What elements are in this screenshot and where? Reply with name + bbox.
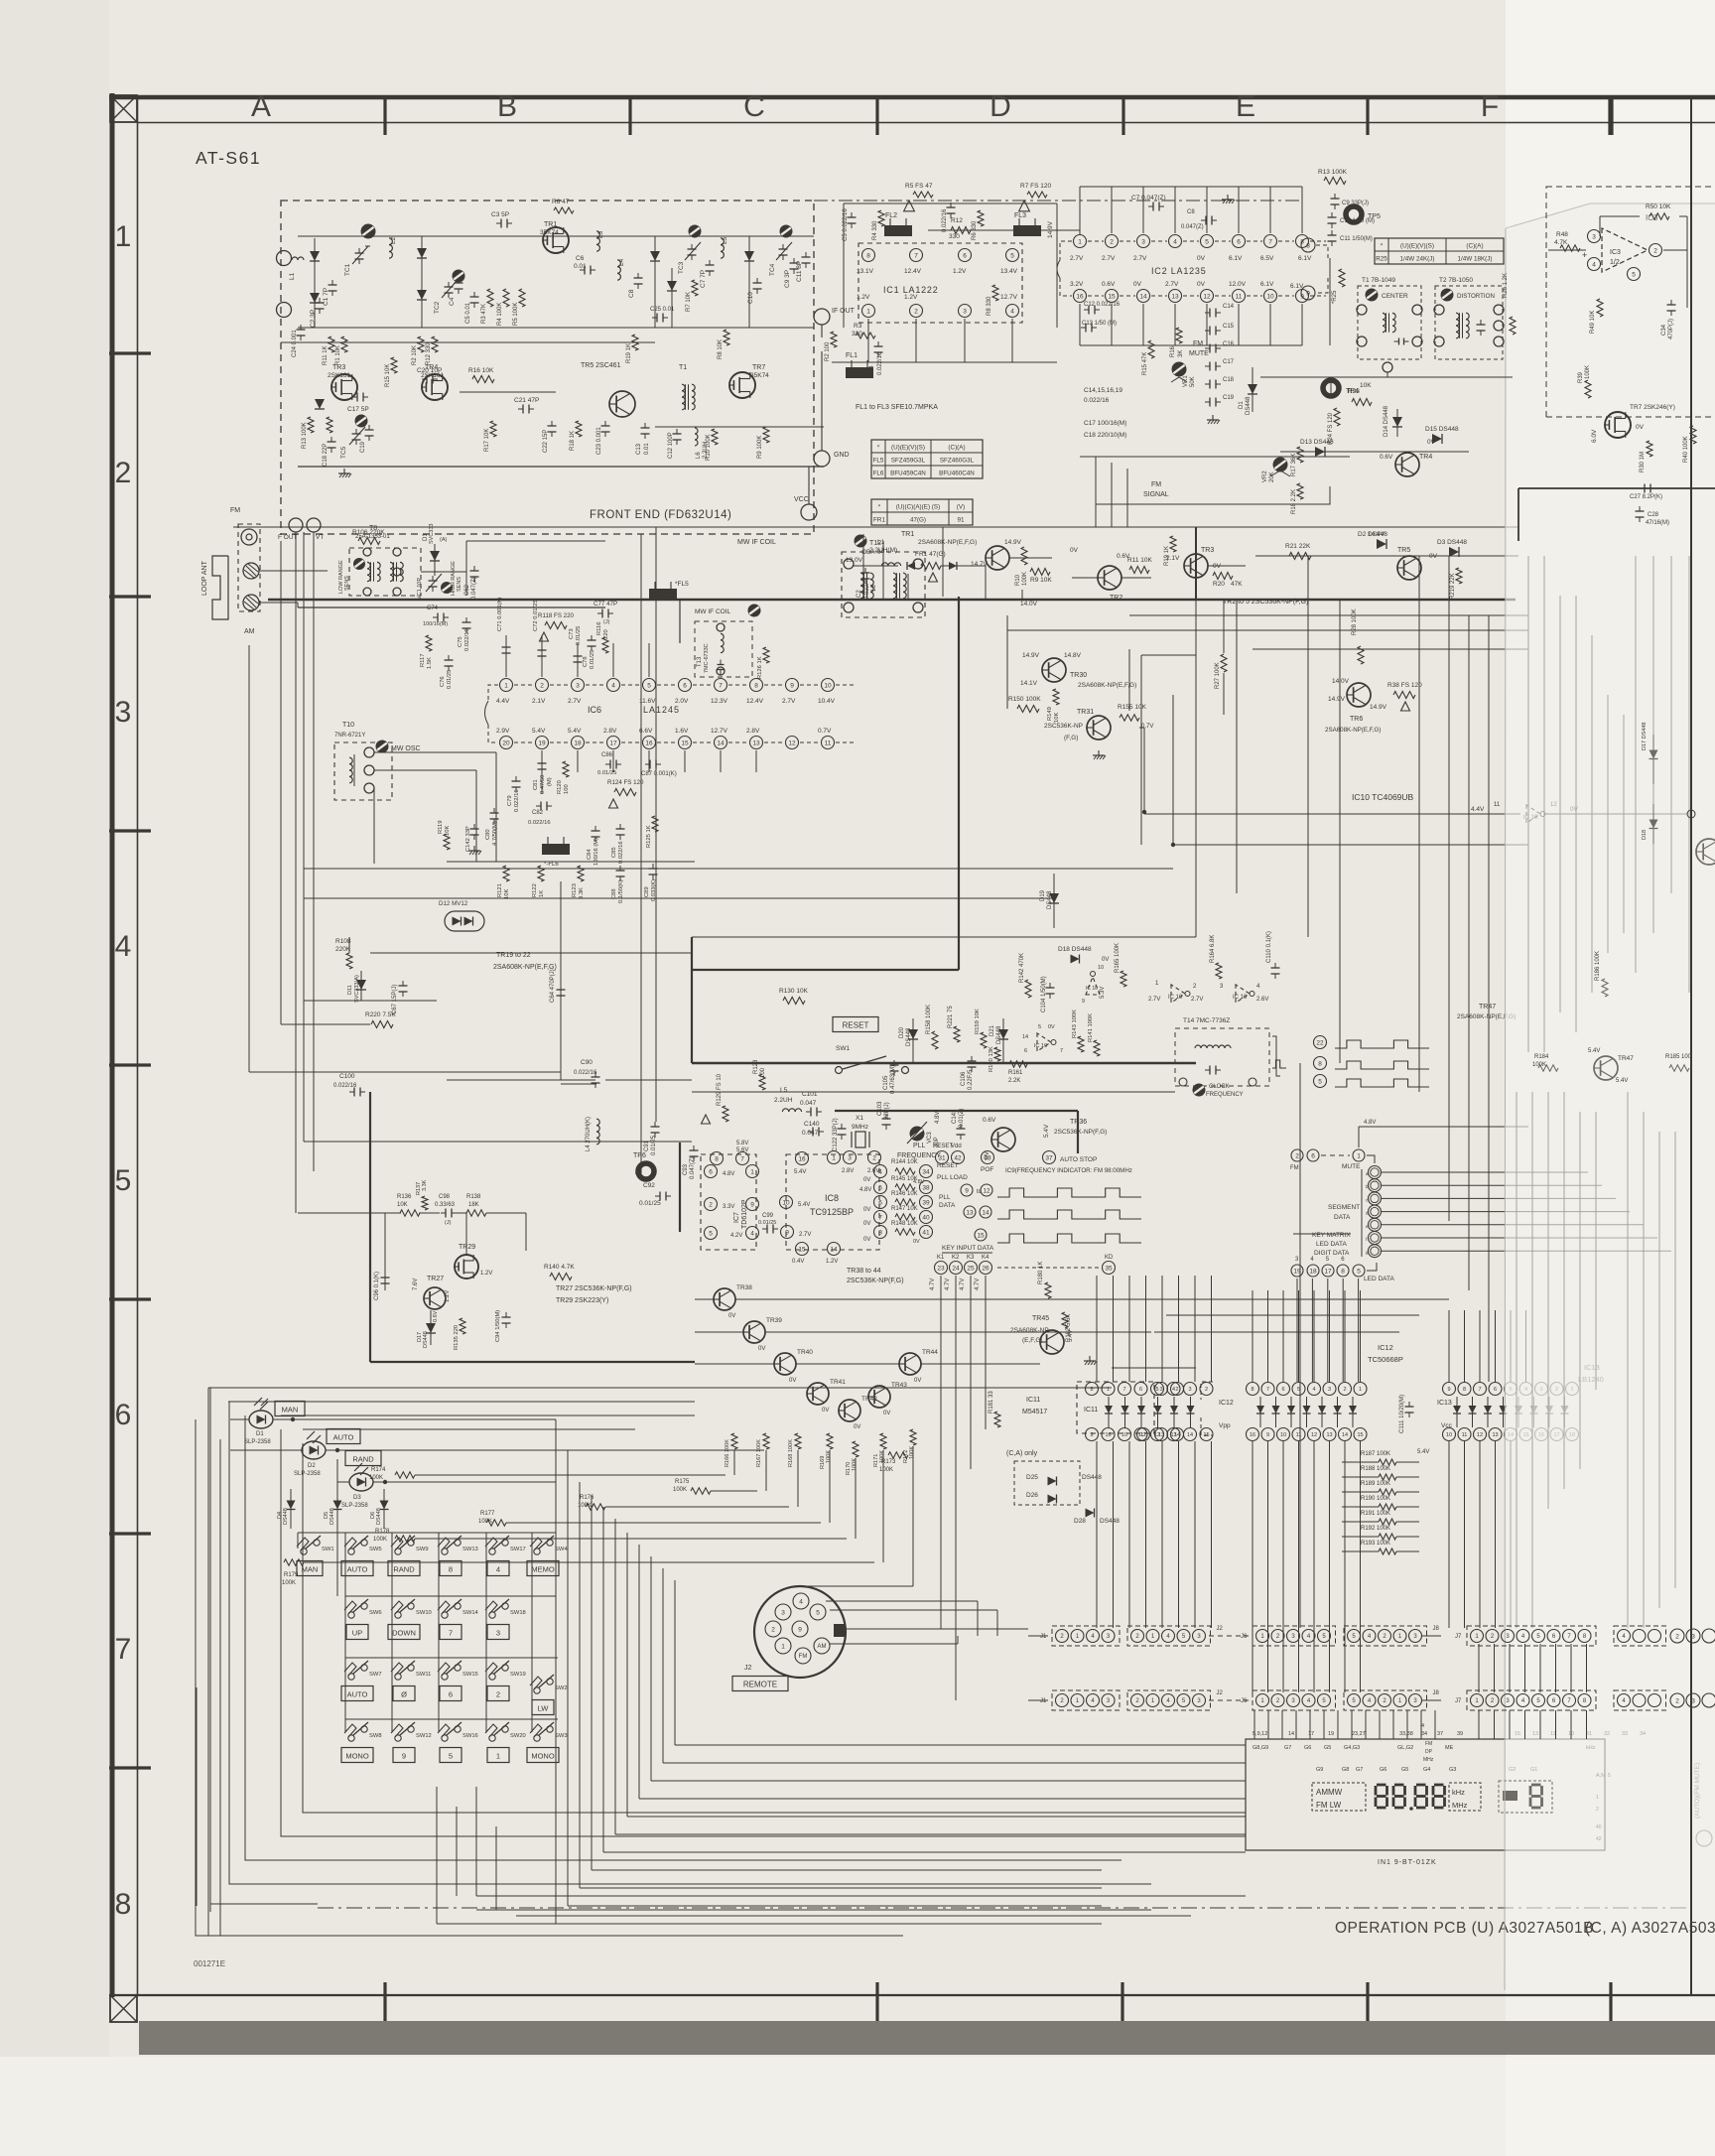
svg-text:7: 7 — [878, 1214, 882, 1221]
svg-text:(E,F,G): (E,F,G) — [1022, 1337, 1043, 1344]
trimmer TC3 — [678, 225, 701, 274]
svg-text:L5: L5 — [780, 1087, 788, 1094]
resistor R2 100 — [825, 332, 837, 361]
svg-text:0V: 0V — [822, 1408, 829, 1414]
capacitor C10 — [747, 278, 762, 304]
wire trunk v3 — [295, 556, 297, 1213]
svg-text:T2 7B-1050: T2 7B-1050 — [1439, 277, 1473, 284]
connector J7 lower — [1455, 1690, 1596, 1710]
svg-text:2.8V: 2.8V — [603, 728, 617, 735]
IC2 pin 10 — [1260, 281, 1294, 303]
svg-text:C94 1/50(M): C94 1/50(M) — [495, 1310, 501, 1342]
svg-text:SW3: SW3 — [555, 1733, 568, 1739]
wire r108 net — [304, 937, 437, 1001]
svg-text:31: 31 — [938, 1154, 946, 1161]
resistor R135 220 — [454, 1318, 465, 1350]
svg-text:6.1V: 6.1V — [1229, 255, 1243, 262]
wire disp feed 4 — [1295, 1710, 1297, 1739]
svg-text:2.2UH: 2.2UH — [774, 1097, 793, 1104]
svg-text:D18: D18 — [1642, 830, 1648, 840]
svg-text:R149: R149 — [1047, 707, 1053, 721]
svg-text:13.1V: 13.1V — [857, 268, 874, 275]
svg-text:C28: C28 — [1648, 512, 1659, 518]
svg-text:R19 1K: R19 1K — [1164, 546, 1170, 566]
svg-text:M54517: M54517 — [1022, 1409, 1047, 1415]
svg-text:C100: C100 — [339, 1073, 355, 1080]
IC12 pin 3 — [1323, 1383, 1336, 1396]
svg-text:14: 14 — [1139, 293, 1147, 300]
transistor TR5 2SC461 — [581, 362, 635, 417]
LED D2 SLP-2358 — [230, 1429, 764, 1478]
svg-text:3.3V: 3.3V — [723, 1204, 734, 1210]
capacitor C71 0.001(K) — [497, 597, 511, 677]
svg-text:R167 100K: R167 100K — [756, 1439, 762, 1467]
waveform pins 22 8 3 — [1314, 1036, 1430, 1088]
svg-text:LA1245: LA1245 — [643, 705, 680, 715]
wire overlay opamp — [1548, 216, 1687, 308]
svg-text:4.7V: 4.7V — [930, 1279, 936, 1290]
svg-text:R138: R138 — [466, 1194, 481, 1200]
svg-text:12: 12 — [1477, 1432, 1483, 1438]
wire nest 4 — [592, 1495, 1102, 1870]
svg-text:1: 1 — [1078, 238, 1082, 245]
svg-text:C11 1/50(M): C11 1/50(M) — [1340, 236, 1373, 242]
transistor TR4 2SK161 — [421, 364, 448, 400]
svg-text:6: 6 — [1139, 1387, 1142, 1393]
svg-text:(F,G): (F,G) — [1064, 735, 1078, 741]
grid label D — [989, 90, 1011, 123]
IC11 pin 16 — [1102, 1428, 1115, 1441]
filter FL5 — [649, 581, 689, 600]
wire row5-6 pin drops c — [1449, 1310, 1526, 1382]
svg-text:R17 10K: R17 10K — [484, 429, 490, 452]
label KEY MATRIX — [1312, 1232, 1351, 1257]
svg-text:D26: D26 — [1026, 1492, 1038, 1499]
svg-text:5.6V: 5.6V — [736, 1147, 748, 1153]
svg-text:7: 7 — [1122, 1387, 1125, 1393]
IC12 pin 14 — [1339, 1428, 1352, 1441]
capacitor C17 — [1205, 359, 1235, 371]
svg-text:G4,G3: G4,G3 — [1344, 1745, 1360, 1751]
svg-text:TC5: TC5 — [340, 446, 347, 459]
svg-text:3: 3 — [963, 308, 967, 315]
svg-text:G9: G9 — [1316, 1767, 1323, 1773]
wire tr39 col drop — [711, 1450, 766, 1491]
capacitor C104 1/50 — [1041, 976, 1055, 1012]
svg-text:5: 5 — [709, 1230, 713, 1237]
svg-text:R4 330: R4 330 — [872, 220, 878, 240]
svg-text:R5 100K: R5 100K — [513, 303, 519, 326]
svg-text:FL6: FL6 — [873, 470, 884, 476]
svg-text:10.4V: 10.4V — [818, 698, 836, 705]
svg-text:(V): (V) — [957, 503, 965, 510]
svg-text:5: 5 — [1632, 271, 1636, 278]
svg-text:12.0V: 12.0V — [1229, 281, 1247, 288]
transistor TR44 — [899, 1349, 938, 1384]
svg-text:VT: VT — [316, 534, 324, 541]
wire if stage rails — [854, 527, 1518, 578]
wire disp feed 6 — [1323, 1710, 1325, 1739]
terminal IF OUT — [814, 308, 856, 325]
svg-text:6: 6 — [1311, 1152, 1315, 1159]
IC8 pin 7 — [863, 1211, 887, 1228]
connector J1 lower — [1040, 1690, 1120, 1710]
svg-text:2.7V: 2.7V — [782, 698, 796, 705]
IC11 pin 11 — [1134, 1428, 1147, 1441]
svg-text:1/4W 18K(J): 1/4W 18K(J) — [1458, 255, 1493, 262]
svg-text:4.7V: 4.7V — [960, 1279, 966, 1290]
svg-text:C88: C88 — [611, 888, 617, 899]
svg-text:11: 11 — [1462, 1432, 1468, 1438]
svg-text:14.9V: 14.9V — [1004, 539, 1022, 546]
resistor R2 10K — [412, 337, 424, 365]
resistor R19 1K — [626, 335, 638, 363]
label KEY INPUT DATA — [942, 1245, 994, 1253]
IC2 pin 8 — [1296, 235, 1327, 248]
IC11 pin 14 — [1184, 1428, 1197, 1441]
svg-text:D13 DS448: D13 DS448 — [1300, 439, 1334, 446]
label IC9 frequency — [1005, 1167, 1132, 1174]
svg-text:13: 13 — [1326, 1432, 1332, 1438]
IC6 pin 20 — [496, 728, 532, 749]
svg-text:D25: D25 — [1026, 1474, 1038, 1481]
diode D11 SVC333 — [347, 971, 366, 1003]
svg-text:C18 220/10(M): C18 220/10(M) — [1084, 432, 1126, 439]
resistor R184 100K — [1532, 1054, 1558, 1071]
svg-text:5.4V: 5.4V — [1043, 1124, 1050, 1138]
svg-text:L3: L3 — [597, 230, 604, 238]
diode D28 DS448 — [1074, 1509, 1120, 1526]
display digit grids — [1316, 1767, 1537, 1773]
row tick 1 — [109, 351, 151, 354]
svg-text:4: 4 — [878, 1168, 882, 1175]
transistor TR6 — [1325, 678, 1387, 734]
svg-text:R16: R16 — [1170, 345, 1176, 357]
svg-text:C17 100/16(M): C17 100/16(M) — [1084, 420, 1126, 427]
svg-text:DS448: DS448 — [1246, 396, 1252, 415]
wire mid band v1138 — [1128, 649, 1130, 711]
svg-text:R117: R117 — [420, 654, 426, 667]
svg-text:2: 2 — [1675, 1633, 1679, 1640]
wire ic2 pin drops top — [1080, 187, 1302, 233]
trimmer TC5 — [340, 415, 367, 459]
svg-text:K3: K3 — [967, 1255, 975, 1261]
capacitor C122 33P — [833, 1118, 847, 1151]
svg-text:J8: J8 — [1433, 1626, 1440, 1632]
wire disp feed 12 — [1406, 1710, 1408, 1739]
connector J6 lower — [1241, 1690, 1336, 1710]
svg-text:DS448: DS448 — [906, 1027, 912, 1046]
IC2 pin 1 — [1070, 235, 1104, 263]
wire disp feed 7 — [1337, 1710, 1339, 1739]
svg-text:R180 1K: R180 1K — [1038, 1262, 1044, 1284]
IC6 pin 12 — [786, 737, 819, 749]
svg-text:5.4V: 5.4V — [794, 1169, 806, 1175]
IC13 diode 2 — [1469, 1397, 1477, 1427]
coil L6 2.2UH — [695, 428, 709, 459]
resistor R27 100K — [1215, 654, 1227, 689]
IC11 pin 7 — [1119, 1383, 1131, 1396]
svg-text:SW13: SW13 — [462, 1547, 478, 1552]
ceramic filter FL3 — [1013, 212, 1041, 236]
svg-text:4: 4 — [1010, 308, 1014, 315]
svg-text:R2 100: R2 100 — [825, 341, 831, 361]
ground ic2 mid — [1207, 415, 1220, 424]
svg-text:35: 35 — [1105, 1265, 1113, 1272]
svg-text:SW20: SW20 — [510, 1733, 526, 1739]
svg-text:6.0V: 6.0V — [1591, 429, 1598, 443]
resistor R143 100K — [1072, 1010, 1084, 1052]
svg-text:KEY INPUT DATA: KEY INPUT DATA — [942, 1245, 994, 1252]
wire vt drop — [296, 532, 314, 1171]
IC12 pin 1 — [1354, 1383, 1367, 1396]
svg-text:5: 5 — [1318, 1078, 1322, 1085]
coil L4 — [617, 258, 625, 280]
resistor R116 220 — [596, 622, 609, 653]
svg-text:4: 4 — [799, 1598, 803, 1605]
svg-text:2.7V: 2.7V — [1102, 255, 1116, 262]
svg-text:470P(J): 470P(J) — [1668, 319, 1674, 339]
connector right lower — [1614, 1690, 1715, 1710]
IC13 pin 14 — [1505, 1428, 1517, 1441]
transistor TR7 35K74 — [729, 364, 769, 398]
svg-text:0.01/25: 0.01/25 — [651, 1135, 657, 1155]
IC2 LA1235 label — [1151, 266, 1207, 276]
resistor R165 100K — [1115, 943, 1126, 987]
resistor R168 100K — [788, 1433, 801, 1467]
svg-text:C34: C34 — [1661, 324, 1667, 336]
svg-text:6: 6 — [1024, 1048, 1027, 1054]
label FM MUTE — [1189, 340, 1209, 357]
terminal VCC — [794, 496, 817, 520]
svg-text:(M): (M) — [547, 777, 553, 786]
resistor R3 47K — [481, 289, 493, 324]
svg-text:DATA: DATA — [1334, 1214, 1351, 1221]
svg-text:8: 8 — [115, 1888, 132, 1921]
terminal GND — [814, 451, 850, 467]
node FM antenna feed — [277, 251, 305, 318]
svg-text:8: 8 — [1463, 1387, 1466, 1393]
svg-text:0.1/50(K): 0.1/50(K) — [618, 879, 624, 903]
svg-text:23: 23 — [937, 1265, 945, 1272]
svg-text:C81: C81 — [533, 779, 539, 790]
key K3 — [965, 1255, 978, 1275]
svg-text:7: 7 — [1268, 238, 1272, 245]
IC2 pin 5 — [1197, 235, 1231, 263]
svg-text:DS448: DS448 — [1082, 1474, 1102, 1481]
wire v1318 long — [1307, 556, 1309, 937]
svg-text:R182 5.6K: R182 5.6K — [1066, 1314, 1072, 1342]
IC12 pin 13 — [1323, 1428, 1336, 1441]
svg-text:4: 4 — [1312, 1387, 1315, 1393]
svg-text:R161: R161 — [1008, 1070, 1023, 1076]
svg-text:2: 2 — [1205, 1387, 1208, 1393]
resistor R129 FS 10 — [702, 1073, 729, 1124]
column tick 5 — [1366, 95, 1369, 135]
IC8 pin 39 — [920, 1194, 957, 1209]
wire mid band h635 — [1007, 629, 1528, 631]
svg-text:FL3: FL3 — [1014, 212, 1026, 219]
svg-text:TR5: TR5 — [1397, 547, 1410, 554]
IC12 pin 11 — [1292, 1428, 1305, 1441]
svg-text:1.2V: 1.2V — [480, 1271, 492, 1277]
svg-text:D3 DS448: D3 DS448 — [1437, 539, 1467, 546]
svg-text:L1: L1 — [289, 272, 296, 280]
svg-text:R136: R136 — [397, 1194, 412, 1200]
remote connector J2 — [732, 1586, 846, 1691]
svg-text:*R25: *R25 — [1332, 290, 1338, 304]
svg-text:10: 10 — [1098, 965, 1104, 971]
svg-text:MONO: MONO — [345, 1751, 368, 1760]
svg-text:7: 7 — [115, 1633, 132, 1666]
svg-text:Vcc: Vcc — [1441, 1422, 1453, 1429]
capacitor C91 0.01/25 — [644, 1122, 660, 1155]
T8 block — [338, 525, 421, 596]
transformer T1 center — [1357, 277, 1422, 372]
wire front-end outputs — [809, 325, 822, 504]
display band box — [1312, 1783, 1366, 1811]
svg-text:0.01/25: 0.01/25 — [576, 626, 582, 645]
svg-text:TR44: TR44 — [922, 1349, 938, 1356]
svg-text:VC3: VC3 — [927, 1132, 933, 1144]
IC13 pin 8 — [1458, 1383, 1471, 1396]
svg-text:C105: C105 — [883, 1075, 889, 1090]
svg-text:DP: DP — [1425, 1749, 1433, 1755]
svg-text:R221 75: R221 75 — [948, 1006, 954, 1028]
connector J6 upper — [1241, 1626, 1336, 1646]
resistor R118 FS220 — [538, 612, 575, 641]
svg-text:100K: 100K — [673, 1487, 687, 1493]
switch SW1 [MAN] — [297, 1536, 334, 1576]
svg-text:R140 4.7K: R140 4.7K — [544, 1264, 575, 1271]
wire v1310 down — [1299, 1063, 1301, 1628]
svg-text:X1: X1 — [856, 1115, 863, 1122]
svg-text:R12 330: R12 330 — [426, 342, 432, 365]
IC12 pin 6 — [1277, 1383, 1290, 1396]
diode D6 DS448 — [370, 1489, 389, 1529]
wire remote to J1 b — [830, 1610, 997, 1636]
svg-text:3.3K: 3.3K — [579, 887, 585, 899]
IC6 pin 13 — [746, 728, 782, 749]
svg-text:0.6V: 0.6V — [1102, 281, 1116, 288]
svg-text:C12 0.022/16: C12 0.022/16 — [1084, 302, 1121, 308]
svg-text:0.33/63: 0.33/63 — [435, 1202, 456, 1208]
svg-text:FL1 to FL3 SFE10.7MPKA: FL1 to FL3 SFE10.7MPKA — [856, 404, 938, 411]
label TR2to5 — [1223, 599, 1308, 606]
IC6 pin 5 — [639, 679, 675, 706]
svg-text:C14,15,16,19: C14,15,16,19 — [1084, 387, 1122, 394]
svg-text:(C)(A): (C)(A) — [1466, 242, 1483, 249]
svg-text:2.7V: 2.7V — [1133, 255, 1147, 262]
resistor R161 2.2K — [1008, 1061, 1027, 1084]
svg-text:R21 22K: R21 22K — [1285, 543, 1311, 550]
resistor R13 100K — [302, 417, 314, 449]
IC13 pin 7 — [1474, 1383, 1487, 1396]
wire nest 5 — [603, 1507, 1246, 1852]
svg-text:SLP-2358: SLP-2358 — [341, 1503, 368, 1509]
resistor R174 100K — [369, 1467, 415, 1481]
svg-text:C71 0.001(K): C71 0.001(K) — [497, 597, 503, 631]
capacitor C67 15P — [392, 981, 408, 1014]
svg-text:C25 0.01: C25 0.01 — [650, 307, 675, 313]
resistor R26 1.2K — [1503, 273, 1516, 335]
svg-text:RAND: RAND — [393, 1564, 415, 1573]
IC11 pin 9 — [1086, 1428, 1099, 1441]
svg-text:14.0V: 14.0V — [1332, 678, 1350, 685]
svg-text:3: 3 — [1141, 238, 1145, 245]
row label 8 — [115, 1888, 132, 1921]
transistor TR4b — [1380, 439, 1436, 476]
svg-text:14.8V: 14.8V — [1064, 652, 1082, 659]
svg-text:0V: 0V — [914, 1378, 921, 1384]
IC8 pin 42 — [951, 1144, 965, 1164]
svg-text:0V: 0V — [913, 1239, 920, 1245]
resistor R137 3.3K — [416, 1179, 428, 1210]
IC11 pin 15 — [1200, 1428, 1213, 1441]
title AT-S61 — [196, 148, 261, 168]
capacitor C18 22P — [323, 437, 336, 467]
wire conn dashes upper — [1028, 1635, 1441, 1637]
svg-text:0V: 0V — [854, 1424, 860, 1430]
IC12 pin 5 — [1292, 1383, 1305, 1396]
IC6 pin 16 — [639, 728, 675, 749]
svg-text:34: 34 — [1421, 1731, 1427, 1737]
svg-text:VC1 10P: VC1 10P — [417, 578, 423, 600]
7seg digit 3 — [1409, 1785, 1426, 1811]
overlay page sheet — [1506, 0, 1715, 2156]
svg-text:3: 3 — [848, 1154, 852, 1161]
resistor R50 10K — [1646, 203, 1671, 219]
wire h1440 — [303, 1428, 635, 1430]
resistor R7 FS 120 — [1019, 183, 1052, 211]
wire tr40 col drop — [605, 1450, 798, 1507]
wire nest 6 — [615, 1519, 1246, 1834]
svg-text:C9 3P: C9 3P — [784, 270, 791, 288]
IC8 pin 8 — [863, 1226, 887, 1244]
svg-text:19: 19 — [1328, 1731, 1334, 1737]
IC8 pin 9 — [781, 1226, 812, 1239]
svg-text:18: 18 — [574, 740, 582, 746]
svg-text:FL2: FL2 — [885, 212, 897, 219]
resistor R219 22K — [1450, 568, 1462, 600]
svg-text:C17: C17 — [1223, 359, 1235, 365]
wire overlay mid rails — [1528, 556, 1689, 1052]
resistor R155 10K — [1118, 704, 1153, 730]
svg-text:SW15: SW15 — [462, 1672, 478, 1678]
switch SW5 [AUTO] — [341, 1536, 382, 1576]
switch SW16 [5] — [438, 1722, 478, 1763]
resistor R176 100K — [578, 1495, 605, 1510]
row label 7 — [115, 1633, 132, 1666]
svg-text:R184: R184 — [1534, 1054, 1549, 1060]
svg-text:0.6V: 0.6V — [433, 1310, 439, 1322]
diode D14 DS448 — [1384, 405, 1402, 437]
label TR1 2SA608K — [901, 531, 977, 546]
svg-text:G4: G4 — [1423, 1767, 1430, 1773]
svg-text:1.2V: 1.2V — [904, 294, 918, 301]
svg-text:D: D — [989, 90, 1011, 123]
resistor R117 1.5K — [420, 635, 433, 669]
IC6 pin 10 — [818, 679, 854, 706]
wire nest 8 — [639, 1545, 1246, 1799]
resistor R179 100K — [282, 1559, 304, 1586]
resistor R9 10K — [1030, 569, 1052, 585]
capacitor C96 0.1(K) — [374, 1213, 390, 1300]
wire h851 — [1171, 695, 1528, 847]
resistor R121 10K — [497, 866, 510, 899]
label FL1-FL3 type — [856, 404, 938, 411]
svg-text:0.047(Z): 0.047(Z) — [471, 577, 477, 600]
